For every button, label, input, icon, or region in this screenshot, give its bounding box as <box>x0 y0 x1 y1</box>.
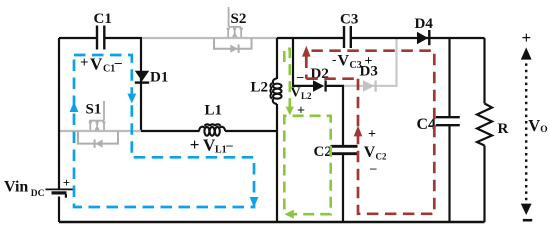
wire top middle to C3 <box>277 37 343 39</box>
resistor R <box>477 104 492 146</box>
svg-text:–: – <box>114 56 123 71</box>
Vo arrow up <box>521 47 532 59</box>
svg-text:+: + <box>80 55 89 71</box>
wire right border bottom <box>483 146 485 223</box>
svg-text:-: - <box>332 52 336 67</box>
blue loop dashed <box>74 55 254 207</box>
label VC2 with + and - <box>364 127 387 175</box>
wire D1 branch vertical <box>140 38 142 132</box>
svg-text:R: R <box>498 121 509 137</box>
capacitor C4 <box>436 117 460 125</box>
wire S1 branch gray horizontal <box>59 130 141 132</box>
green loop <box>284 116 330 214</box>
wire C2 bottom <box>342 154 344 222</box>
diode D3 <box>363 80 376 92</box>
Vo minus <box>523 219 532 222</box>
blue arrow up left <box>70 102 79 113</box>
wire L1 right to L2 branch <box>225 130 277 132</box>
diode D2 <box>313 80 326 92</box>
capacitor C2 <box>331 146 358 153</box>
svg-text:V: V <box>364 144 376 161</box>
svg-text:+: + <box>522 28 532 47</box>
svg-text:+: + <box>63 175 70 190</box>
svg-text:L1: L1 <box>205 103 223 119</box>
Vo dotted line <box>525 57 527 206</box>
diode D4 <box>417 30 429 45</box>
green segment through L2 <box>284 49 290 107</box>
svg-text:V: V <box>338 53 350 70</box>
diode D1 <box>135 71 149 83</box>
Vo arrow down <box>521 204 532 215</box>
wire top-left from left border to C1 <box>59 37 97 39</box>
wire L1 left <box>141 130 200 132</box>
inductor L2 <box>270 78 281 104</box>
svg-text:+: + <box>365 54 373 69</box>
transistor S1 <box>78 101 118 148</box>
svg-text:D4: D4 <box>415 16 434 32</box>
svg-text:+: + <box>368 127 376 142</box>
svg-text:C3: C3 <box>340 12 358 28</box>
wire gray top (C1 junction to L2 top, carries S2) <box>142 37 277 39</box>
green arrow left <box>284 210 293 219</box>
wire C1 to D1 branch <box>105 37 142 39</box>
svg-text:–: – <box>369 160 377 175</box>
svg-text:V: V <box>528 116 540 135</box>
svg-text:C2: C2 <box>314 144 332 160</box>
svg-text:C3: C3 <box>350 60 362 71</box>
wire L2 branch vertical bottom <box>276 104 278 222</box>
wire C4 branch top <box>448 38 450 117</box>
red segment vertical left <box>305 57 308 79</box>
red arrow up small <box>302 46 311 57</box>
svg-text:O: O <box>540 125 547 135</box>
red arrow up mid <box>354 126 363 137</box>
label +VL1- <box>190 135 234 156</box>
wire D2 branch <box>293 38 313 86</box>
red loop main <box>312 51 435 214</box>
svg-text:C2: C2 <box>376 151 387 161</box>
svg-text:C1: C1 <box>103 64 115 75</box>
svg-text:D1: D1 <box>150 70 168 86</box>
inductor L1 <box>199 124 225 135</box>
svg-text:DC: DC <box>31 189 45 199</box>
wire right border top (R branch) <box>483 38 485 104</box>
wire left border top <box>58 38 60 189</box>
capacitor C3 <box>344 26 351 48</box>
svg-text:L2: L2 <box>301 91 312 101</box>
svg-text:S1: S1 <box>86 102 102 118</box>
svg-text:C1: C1 <box>94 11 112 27</box>
battery Vin <box>46 189 75 197</box>
transistor S2 <box>214 7 252 53</box>
svg-text:L2: L2 <box>251 80 269 96</box>
wire C3 to D4 <box>351 37 485 39</box>
label +VC1- <box>80 55 123 75</box>
blue arrow down at D1 <box>127 94 136 104</box>
wire gray D3 branch <box>344 38 397 86</box>
wire D2 to C2 junction <box>326 85 344 87</box>
svg-text:Vin: Vin <box>4 179 28 196</box>
svg-text:V: V <box>291 86 301 101</box>
svg-text:–: – <box>296 69 304 84</box>
blue arrow down right <box>250 197 259 207</box>
wire left border bottom <box>58 197 60 223</box>
svg-text:S2: S2 <box>231 11 247 27</box>
svg-text:+: + <box>190 135 200 154</box>
wire C2 branch vertical <box>342 86 344 146</box>
svg-text:–: – <box>225 137 233 152</box>
wire C4 branch bottom <box>448 126 450 223</box>
svg-text:V: V <box>90 55 103 74</box>
wire L2 branch vertical top <box>276 38 278 79</box>
label -VC3+ <box>332 52 373 72</box>
wire bottom <box>59 221 485 223</box>
svg-text:L1: L1 <box>215 145 227 156</box>
green arrow down <box>286 107 294 116</box>
capacitor C1 <box>97 26 104 50</box>
red segment horizontal under D2 <box>306 77 358 80</box>
label VL2 with - and + <box>291 69 313 119</box>
